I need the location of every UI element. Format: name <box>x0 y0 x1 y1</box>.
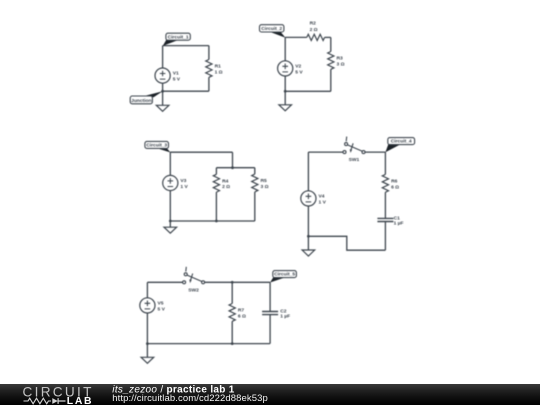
wire: circuit 1 right lower <box>208 77 210 91</box>
svg-text:1 Ω: 1 Ω <box>215 69 223 75</box>
wire: circuit 4 right lower <box>384 222 386 251</box>
node junction dot circuit 5 gnd <box>146 342 149 345</box>
wire: C2 branch upper <box>269 282 271 311</box>
net flag Junction <box>142 91 163 97</box>
resistor R5 <box>252 174 258 192</box>
wire: circuit 3 left upper <box>169 152 171 175</box>
svg-text:R1: R1 <box>215 64 222 70</box>
svg-text:R5: R5 <box>261 178 268 184</box>
svg-text:R3: R3 <box>337 56 344 62</box>
wire: R4 branch upper <box>215 168 217 175</box>
svg-text:1 µF: 1 µF <box>394 221 404 227</box>
footer bar <box>0 384 540 405</box>
wire: circuit 2 bottom <box>285 90 331 92</box>
svg-text:V3: V3 <box>180 178 186 184</box>
svg-text:SW1: SW1 <box>349 157 360 163</box>
node junction dot circuit 2 <box>284 90 287 93</box>
voltage source V5 <box>140 298 155 313</box>
wire: R5 branch upper <box>254 168 256 174</box>
svg-text:http://circuitlab.com/cd222d88: http://circuitlab.com/cd222d88ek53p <box>112 393 268 404</box>
svg-text:Circuit_4: Circuit_4 <box>391 139 412 145</box>
wire: circuit 5 bottom <box>147 343 270 345</box>
svg-text:Circuit_1: Circuit_1 <box>168 34 189 40</box>
capacitor C2 <box>262 312 278 315</box>
wire: circuit 2 left lower <box>284 76 286 91</box>
svg-text:V2: V2 <box>295 63 301 69</box>
resistor R7 <box>229 304 235 322</box>
svg-text:Circuit_5: Circuit_5 <box>274 272 295 278</box>
net flag Circuit_5 <box>270 277 285 283</box>
switch SW1 <box>343 137 365 154</box>
wire: circuit 4 right mid <box>384 192 386 218</box>
svg-text:2 Ω: 2 Ω <box>310 27 318 33</box>
wire: circuit 1 top <box>163 45 209 47</box>
svg-text:5 V: 5 V <box>158 306 166 312</box>
svg-text:5 V: 5 V <box>173 77 181 83</box>
svg-text:Circuit_2: Circuit_2 <box>261 26 282 32</box>
CircuitLab logo resistor-diode drawing <box>24 398 66 404</box>
wire: C2 branch lower <box>269 315 271 344</box>
wire: circuit 1 bottom <box>163 90 209 92</box>
wire: circuit 3 top <box>170 151 232 153</box>
switch SW2 <box>183 267 205 284</box>
wire: R7 branch upper <box>231 282 233 303</box>
node junction dot R7 bottom <box>231 342 234 345</box>
wire: circuit 5 top left <box>147 281 182 283</box>
wire: circuit 3 left lower <box>169 191 171 221</box>
wire: circuit 5 left lower <box>146 313 148 344</box>
wire: circuit 4 left upper <box>307 152 309 191</box>
wire: R5 branch lower <box>254 192 256 221</box>
ground circuit 3 <box>169 221 171 227</box>
node junction dot circuit 1 <box>161 90 164 93</box>
net flag Circuit_3 <box>155 148 171 153</box>
svg-text:R2: R2 <box>310 21 317 27</box>
ground circuit 2 <box>284 91 286 105</box>
svg-text:C1: C1 <box>394 215 401 221</box>
wire: circuit 2 top right <box>325 36 331 38</box>
node junction dot R7 top <box>231 281 234 284</box>
net flag Circuit_2 <box>268 31 285 38</box>
svg-text:Junction: Junction <box>131 98 151 104</box>
node junction dot R4 bottom <box>215 220 218 223</box>
svg-text:3 Ω: 3 Ω <box>261 184 269 190</box>
net flag Circuit_4 <box>385 144 400 153</box>
wire: circuit 3 bus <box>216 167 254 169</box>
resistor R4 <box>213 174 219 192</box>
resistor R1 <box>206 60 212 78</box>
svg-text:5 V: 5 V <box>295 69 303 75</box>
node junction dot circuit 3 bus <box>231 166 234 169</box>
wire: circuit 5 left upper <box>146 282 148 298</box>
voltage source V3 <box>163 175 178 190</box>
svg-text:C2: C2 <box>280 308 287 314</box>
ground circuit 1 <box>162 91 164 105</box>
svg-text:LAB: LAB <box>67 396 93 405</box>
wire: circuit 4 top right <box>365 151 385 153</box>
svg-text:R4: R4 <box>222 178 229 184</box>
wire: circuit 5 top mid <box>205 281 270 283</box>
voltage source V1 <box>155 68 170 83</box>
resistor R6 <box>382 174 388 192</box>
wire: circuit 4 left lower <box>307 206 309 236</box>
svg-text:V5: V5 <box>158 300 164 306</box>
wire: R7 branch lower <box>231 321 233 343</box>
wire: circuit 4 top left <box>308 151 343 153</box>
wire: circuit 2 left upper <box>284 37 286 60</box>
ground circuit 4 <box>307 236 309 250</box>
wire: R4 branch lower <box>215 192 217 221</box>
voltage source V4 <box>301 191 316 206</box>
svg-text:V4: V4 <box>319 193 325 199</box>
wire: circuit 1 right upper <box>208 46 210 60</box>
wire: circuit 4 right upper <box>384 152 386 174</box>
voltage source V2 <box>278 61 293 76</box>
svg-text:1 µF: 1 µF <box>280 314 290 320</box>
wire: circuit 1 left lower <box>162 83 164 91</box>
resistor R2 <box>307 34 325 40</box>
wire: circuit 1 left upper <box>162 46 164 68</box>
node junction dot circuit 4 <box>307 235 310 238</box>
resistor R3 <box>328 52 334 70</box>
capacitor C1 <box>377 218 393 221</box>
wire: circuit 2 right lower <box>330 69 332 91</box>
svg-text:6 Ω: 6 Ω <box>238 313 246 319</box>
node junction dot circuit 3 gnd <box>169 220 172 223</box>
wire: circuit 3 drop to bus <box>232 152 234 168</box>
svg-text:1 V: 1 V <box>180 184 188 190</box>
svg-text:R6: R6 <box>391 178 398 184</box>
wire: circuit 3 bottom <box>170 220 255 222</box>
ground circuit 5 <box>146 344 148 358</box>
net flag Circuit_1 <box>163 39 179 46</box>
svg-text:R7: R7 <box>238 308 245 314</box>
wire: circuit 2 right upper <box>330 37 332 51</box>
svg-text:3 Ω: 3 Ω <box>337 61 345 67</box>
svg-text:1 V: 1 V <box>319 199 327 205</box>
svg-text:Circuit_3: Circuit_3 <box>146 143 167 149</box>
svg-text:6 Ω: 6 Ω <box>391 184 399 190</box>
svg-text:2 Ω: 2 Ω <box>222 184 230 190</box>
wire: circuit 4 bottom jog <box>308 236 385 250</box>
svg-text:SW2: SW2 <box>188 287 199 293</box>
wire: circuit 2 top left <box>285 36 307 38</box>
svg-text:V1: V1 <box>173 71 179 77</box>
